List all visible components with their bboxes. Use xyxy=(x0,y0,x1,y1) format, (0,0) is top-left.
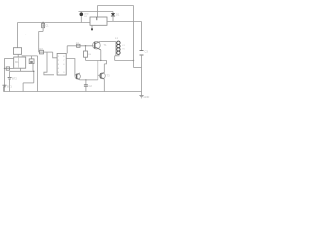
relay K1 xyxy=(90,17,107,25)
wire IC jog path lower xyxy=(44,52,54,75)
svg-text:T3: T3 xyxy=(107,74,111,78)
label LED xyxy=(84,14,89,18)
LED D2 xyxy=(80,11,82,14)
inductor L1 coil xyxy=(115,42,117,56)
wire x23.1 to rail xyxy=(22,83,24,92)
svg-text:GND: GND xyxy=(144,95,150,99)
wire LED row y11.6 xyxy=(79,11,114,13)
node battery tap xyxy=(4,68,5,69)
wire emitter jog xyxy=(104,60,106,64)
wire relay bottom pin xyxy=(91,25,93,28)
wire IC top right riser x67.2 xyxy=(66,46,68,54)
wire cluster top y55.9 xyxy=(22,55,38,57)
wire module bottom pin stub xyxy=(20,68,22,71)
wire R2 to IC pin xyxy=(53,52,57,58)
battery BT1 cell xyxy=(3,85,7,87)
svg-text:BT1: BT1 xyxy=(7,85,12,89)
wire jog to gnd column xyxy=(134,67,142,69)
svg-text:2: 2 xyxy=(58,60,60,62)
wire IC pin to Q3 base xyxy=(66,59,75,76)
resistor R3 xyxy=(77,44,80,47)
wire emitter row y60.4 xyxy=(86,59,107,61)
labels xyxy=(7,13,149,100)
svg-text:M1: M1 xyxy=(15,60,19,64)
svg-text:C2: C2 xyxy=(89,84,93,88)
svg-text:3: 3 xyxy=(58,64,60,66)
node Q2 emitter junction xyxy=(100,60,101,61)
capacitor C3 xyxy=(140,51,144,55)
label IC pins xyxy=(58,56,65,74)
wire coil bottom row y61 xyxy=(115,60,134,62)
svg-text:C3: C3 xyxy=(145,50,149,54)
svg-text:5V: 5V xyxy=(122,49,125,51)
node relay pin mark xyxy=(91,28,93,30)
ground xyxy=(139,95,143,98)
capacitor C2 xyxy=(85,80,87,85)
node top rail junction xyxy=(42,22,43,23)
wire Q4 base stub xyxy=(98,74,100,76)
resistor R2 xyxy=(39,51,53,53)
node coil rail junction xyxy=(133,60,134,61)
svg-text:L1: L1 xyxy=(115,36,118,40)
wire Q4 emitter to rail xyxy=(103,79,105,91)
wire top rail y5 xyxy=(98,5,134,7)
wire coil bottom lead xyxy=(115,55,120,57)
wire gnd stub below rail xyxy=(141,92,143,96)
svg-text:5: 5 xyxy=(58,72,60,74)
wire bottom rail y91.5 xyxy=(4,91,142,93)
transistor Q3 xyxy=(75,74,80,79)
svg-text:8: 8 xyxy=(63,56,65,58)
wire Q3 emitter row y79.9 xyxy=(80,79,98,81)
wire jog to resistor column xyxy=(39,30,43,32)
svg-text:..: .. xyxy=(25,34,27,36)
svg-text:9: 9 xyxy=(63,72,65,74)
svg-text:4: 4 xyxy=(58,68,60,70)
diode D1 xyxy=(112,12,114,14)
svg-text:T1: T1 xyxy=(104,43,108,47)
svg-text:BT2: BT2 xyxy=(12,77,17,81)
wire battery left vertical xyxy=(4,58,6,91)
svg-text:K1: K1 xyxy=(122,45,125,47)
resistor R1 xyxy=(13,48,21,55)
wire x33.8 down xyxy=(33,71,35,83)
svg-text:C1: C1 xyxy=(45,24,49,28)
capacitor C1 xyxy=(42,22,44,25)
wire x37.6 to rail xyxy=(37,56,39,92)
transistor Q2 xyxy=(93,41,101,49)
svg-text:1: 1 xyxy=(58,56,60,58)
wire Q2 collector row y41.6 xyxy=(100,41,116,43)
wire relay right row y21 xyxy=(107,21,142,23)
wire relay top feed x97 xyxy=(97,6,99,18)
svg-text:D1: D1 xyxy=(116,13,120,17)
wire x133.8 vertical xyxy=(133,6,135,68)
wire battery2 vertical x9.6 xyxy=(9,71,11,77)
node cap tap xyxy=(85,79,86,80)
wire top rail y22 xyxy=(18,22,91,24)
svg-text:R2: R2 xyxy=(40,47,44,51)
wire button bottom lead xyxy=(32,64,34,72)
wire button top lead xyxy=(31,56,33,59)
svg-text:7: 7 xyxy=(63,60,65,62)
node R4 tap xyxy=(85,45,86,46)
wire Q2 emitter riser xyxy=(100,50,102,61)
battery BT2 cell xyxy=(8,77,12,79)
switch S1 xyxy=(6,67,9,70)
svg-text:R3: R3 xyxy=(76,41,80,45)
svg-text:6: 6 xyxy=(63,64,65,66)
svg-text:D2: D2 xyxy=(84,16,88,18)
wire Q2 base row y46.3 xyxy=(67,45,93,47)
op-amp IC1 box xyxy=(57,53,66,75)
wire Q4 collector riser xyxy=(103,64,105,73)
wire left vertical x17.5 xyxy=(17,23,19,48)
svg-text:R4: R4 xyxy=(88,54,92,56)
module X1 xyxy=(14,57,26,68)
wire module bottom row y71.3 xyxy=(10,70,34,72)
wire battery top xyxy=(5,57,14,59)
resistor R4 xyxy=(85,46,87,51)
node button junction xyxy=(33,71,34,72)
transistor Q4 xyxy=(100,73,106,79)
wire switch row y68.4 xyxy=(5,67,14,69)
pushbutton S2 xyxy=(29,59,34,64)
wire gnd column x141.8 upper xyxy=(141,22,143,51)
wire stub R1 to module xyxy=(17,54,19,57)
wire jog y82.9 xyxy=(23,82,34,84)
wire riser x97.8 xyxy=(97,60,99,80)
